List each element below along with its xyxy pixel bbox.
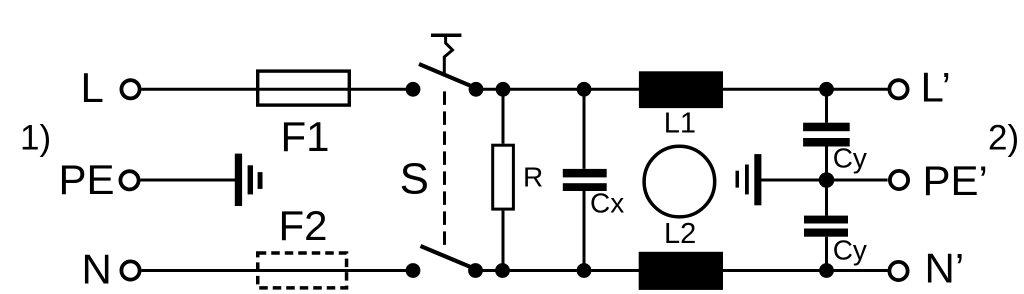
- svg-text:N: N: [82, 245, 112, 292]
- wire Cy middle stub lower: [825, 180, 828, 216]
- svg-text:L: L: [81, 64, 104, 111]
- wire R bottom stub: [502, 211, 505, 271]
- label L1: [664, 108, 696, 140]
- label 2): [988, 118, 1019, 157]
- fuse F1: [258, 71, 350, 105]
- node R top: [496, 82, 511, 97]
- inductor L2 (choke winding): [639, 252, 723, 290]
- svg-text:F1: F1: [281, 113, 330, 160]
- fuse F2 (dashed option): [258, 253, 347, 288]
- node switch pole1 output: [469, 82, 484, 97]
- wire Cy middle stub upper: [825, 147, 828, 181]
- svg-text:R: R: [523, 161, 543, 192]
- label F1: [281, 113, 330, 160]
- switch S pole 1 blade: [419, 64, 477, 89]
- wire earth to Cy junction: [761, 179, 827, 182]
- common-mode choke core: [644, 146, 715, 217]
- label S: [400, 155, 429, 204]
- wire top rail right (switch to L' terminal): [476, 88, 888, 91]
- wire R top stub: [502, 89, 505, 143]
- label N: [82, 245, 112, 292]
- label L: [81, 64, 104, 111]
- earth ground PE (left): [235, 154, 263, 206]
- svg-text:1): 1): [20, 119, 51, 158]
- switch S linkage (dashed): [443, 91, 446, 251]
- svg-text:N’: N’: [925, 244, 965, 291]
- node PE junction: [819, 172, 835, 188]
- label L2: [664, 218, 696, 250]
- svg-text:L2: L2: [664, 218, 696, 250]
- terminal N: [121, 261, 139, 279]
- switch S pole 2 blade: [421, 246, 477, 270]
- svg-text:L’: L’: [921, 63, 951, 110]
- svg-text:PE: PE: [59, 156, 115, 203]
- terminal L: [121, 80, 139, 98]
- svg-text:S: S: [400, 155, 429, 204]
- inductor L1 (choke winding): [639, 71, 723, 108]
- terminal L': [889, 80, 907, 98]
- svg-text:2): 2): [988, 118, 1019, 157]
- label N': [925, 244, 965, 291]
- svg-text:Cy: Cy: [833, 143, 867, 174]
- node switch pole2 output: [468, 263, 483, 278]
- node R bottom: [495, 263, 510, 278]
- svg-text:L1: L1: [664, 108, 696, 140]
- wire PE terminal to earth symbol: [141, 179, 237, 182]
- wire Cy bottom stub: [825, 237, 828, 271]
- label Cx: [590, 187, 624, 218]
- label F2: [279, 202, 328, 249]
- earth ground (middle, mirrored): [736, 154, 762, 205]
- node switch pole1 input: [406, 82, 421, 97]
- svg-text:Cx: Cx: [590, 187, 624, 218]
- svg-text:F2: F2: [279, 202, 328, 249]
- node switch pole2 input: [406, 263, 421, 278]
- switch S actuator bar and spring: [431, 35, 461, 76]
- label 1): [20, 119, 51, 158]
- resistor R: [493, 145, 514, 209]
- wire Cy top stub: [825, 89, 828, 122]
- label PE: [59, 156, 115, 203]
- svg-text:Cy: Cy: [833, 234, 867, 265]
- label Cy upper: [833, 143, 867, 174]
- wire bottom rail right (switch to N' terminal): [476, 269, 888, 272]
- label PE': [923, 157, 988, 204]
- wire PE' junction to terminal: [827, 179, 888, 182]
- node Cx bottom: [577, 263, 592, 278]
- terminal PE': [890, 171, 908, 189]
- label L': [921, 63, 951, 110]
- wire top rail left (L to switch): [142, 88, 414, 91]
- wire bottom rail left (N to switch): [142, 269, 414, 272]
- wire Cx bottom stub: [583, 191, 586, 271]
- terminal PE: [120, 171, 138, 189]
- capacitor Cy (upper): [803, 123, 850, 147]
- terminal N': [889, 262, 907, 280]
- node Cx top: [577, 82, 592, 97]
- label R: [523, 161, 543, 192]
- capacitor Cx: [563, 169, 607, 191]
- capacitor Cy (lower): [804, 216, 848, 237]
- wire Cx top stub: [583, 89, 586, 169]
- label Cy lower: [833, 234, 867, 265]
- node L' junction: [819, 82, 834, 97]
- svg-text:PE’: PE’: [923, 157, 988, 204]
- node N' junction: [819, 263, 834, 278]
